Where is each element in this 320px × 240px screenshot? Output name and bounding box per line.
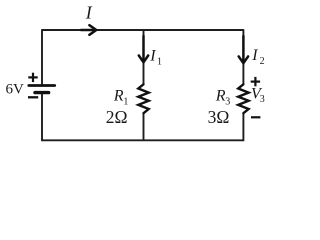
battery minus sign (28, 96, 38, 98)
wire left upper (to battery top plate) (41, 29, 43, 84)
svg-text:I: I (149, 48, 156, 65)
resistor R3 zigzag (238, 84, 248, 113)
wire bottom (42, 139, 243, 141)
battery plus sign (28, 73, 37, 82)
svg-text:R: R (215, 88, 226, 105)
plus sign above V3 (251, 77, 260, 86)
wire right branch lower (R3 to bottom) (242, 113, 244, 141)
svg-text:3Ω: 3Ω (208, 107, 230, 127)
svg-text:R: R (113, 88, 124, 105)
battery V1 positive plate (29, 84, 55, 87)
svg-text:I: I (85, 3, 93, 23)
svg-text:6V: 6V (6, 81, 25, 97)
resistor R1 zigzag (138, 84, 148, 113)
wire top (left node to right node) (42, 29, 243, 31)
svg-text:2: 2 (260, 56, 265, 67)
wire middle branch upper (node to R1) (143, 30, 145, 85)
arrow for current I2 on right branch (239, 36, 248, 63)
minus sign below V3 (251, 116, 260, 118)
wire left lower (battery to bottom wire) (41, 94, 43, 141)
svg-text:3: 3 (260, 94, 265, 105)
wire right branch upper (node to R3) (242, 29, 244, 84)
arrow for current I on top wire (81, 25, 96, 35)
svg-text:1: 1 (123, 96, 128, 107)
svg-text:I: I (251, 47, 258, 64)
battery V1 negative plate (35, 91, 49, 94)
wire middle branch lower (R1 to bottom) (143, 113, 145, 141)
svg-text:2Ω: 2Ω (106, 107, 128, 127)
svg-text:1: 1 (157, 57, 162, 68)
arrow for current I1 on middle branch (139, 36, 148, 62)
svg-text:3: 3 (225, 97, 230, 108)
